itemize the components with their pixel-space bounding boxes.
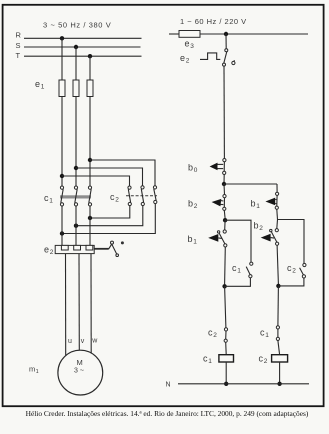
junction L3 tap: [88, 158, 92, 162]
wire c2 aux to node E: [278, 278, 304, 286]
junction control supply: [224, 32, 228, 36]
wire node E to interlock c1: [277, 286, 280, 326]
contactor c1 pole 3: [88, 186, 91, 206]
wire b2 NO to node E: [277, 245, 278, 284]
interlock contact c1 (NC): [276, 326, 279, 341]
contactor c1 mechanical bar: [60, 195, 91, 198]
svg-text:M: M: [77, 358, 83, 367]
wire c1 aux to node C: [225, 278, 251, 287]
wire interlock to coil c2: [278, 341, 280, 355]
wire node B to c1 aux branch: [225, 220, 251, 262]
junction L1 lower: [60, 231, 64, 235]
relay heater L3: [86, 245, 93, 250]
wire b2 to node B: [223, 210, 226, 218]
fuse e3: [179, 31, 200, 38]
coil c1: [219, 355, 234, 362]
wire e2 contact to b0: [223, 66, 225, 158]
junction node B: [223, 218, 227, 222]
wire control supply right: [200, 33, 308, 35]
pushbutton b2 (NC): [212, 195, 226, 211]
overload relay e2 body: [55, 245, 94, 253]
wire neutral bus: [178, 383, 309, 385]
svg-text:3 ~ 50 Hz / 380 V: 3 ~ 50 Hz / 380 V: [43, 21, 111, 30]
wire phase T bus: [24, 55, 142, 57]
wire coil c1 to N: [225, 362, 227, 384]
junction coil c1 N: [224, 382, 228, 386]
wire node D to c2 aux branch: [278, 220, 305, 264]
wire L3 contactor to relay: [89, 206, 91, 245]
pushbutton b1 (NO start): [208, 230, 227, 247]
relay e2 trip linkage: [94, 241, 124, 256]
wire b1 NC to node D: [276, 209, 279, 219]
wire node A to b2: [223, 184, 226, 195]
junction S: [74, 45, 78, 49]
svg-text:3 ~: 3 ~: [74, 368, 84, 375]
svg-text:u: u: [68, 338, 72, 345]
wire L3 drop to fuse: [89, 56, 91, 80]
wire L2 contactor to relay: [75, 206, 77, 245]
wire interlock to coil c1: [225, 342, 228, 354]
wire control supply left: [169, 33, 179, 35]
svg-text:R: R: [16, 31, 22, 40]
contactor c2 pole 3: [153, 186, 157, 204]
interlock contact c2 (NC): [224, 328, 228, 343]
wire L3 fuse to contactor: [89, 97, 91, 187]
wire phase S bus: [24, 46, 141, 48]
wire b1 to node C: [224, 247, 227, 284]
fuse e1 phase L3: [87, 80, 93, 97]
motor m1 circle: [58, 350, 103, 395]
wire L3 tap to c2 contact 3: [90, 160, 155, 186]
junction L2 lower: [74, 224, 78, 228]
wire L1 drop to fuse: [61, 38, 63, 80]
wire b0 to node A: [223, 175, 225, 185]
svg-text:w: w: [91, 338, 98, 345]
relay trip contact e2: [200, 49, 235, 66]
wire c2 pole1 to L3: [90, 206, 130, 218]
contactor c1 pole 2: [74, 186, 77, 206]
junction L3 lower: [88, 216, 92, 220]
wire branch down to b1 NC: [276, 184, 278, 192]
wire c2 pole2 to L2: [76, 206, 143, 226]
wire node C to interlock c2: [225, 286, 226, 328]
junction T: [88, 54, 92, 58]
wire L1 relay to motor: [65, 254, 67, 356]
svg-text:N: N: [166, 382, 171, 389]
wire L1 fuse to contactor: [61, 97, 63, 187]
wire phase R bus: [24, 37, 142, 39]
junction coil c2 N: [277, 382, 281, 386]
relay heater L2: [74, 245, 81, 250]
junction R: [60, 36, 64, 40]
fuse e1 phase L1: [59, 80, 65, 97]
fuse e1 phase L2: [73, 80, 79, 97]
coil c2: [272, 355, 288, 362]
junction node C: [222, 284, 226, 288]
svg-text:T: T: [16, 51, 21, 60]
pushbutton b1 (NC right): [265, 192, 278, 209]
junction L1 tap: [60, 174, 64, 178]
contactor c1 pole 1: [60, 186, 63, 206]
wire L2 drop to fuse: [75, 47, 77, 80]
junction node E: [276, 284, 280, 288]
wire node B to b1: [224, 220, 226, 230]
svg-text:S: S: [16, 41, 21, 50]
wire L2 relay to motor: [78, 254, 80, 351]
wire coil c2 to N: [279, 362, 281, 384]
wire node A to branch b1: [224, 183, 277, 185]
junction node A: [222, 182, 226, 186]
contactor c2 pole 1: [128, 186, 131, 206]
wire L2 fuse to contactor: [75, 97, 77, 187]
junction L2 tap: [74, 166, 78, 170]
aux contact c2 (NO): [300, 263, 306, 278]
contactor c2 mechanical dashed link: [126, 195, 157, 197]
wire L1 tap to c2 contact 1: [62, 176, 130, 186]
wire c2 pole3 to L1: [62, 204, 155, 234]
wire L2 tap to c2 contact 2: [76, 168, 143, 186]
wire L1 contactor to relay: [61, 206, 63, 245]
contactor c2 pole 2: [141, 186, 145, 206]
wire L3 relay to motor: [90, 254, 92, 354]
svg-text:Hélio Creder. Instalações elét: Hélio Creder. Instalações elétricas. 14.…: [26, 409, 309, 418]
wire supply to e2 contact: [225, 34, 227, 49]
relay heater L1: [61, 245, 68, 250]
pushbutton b0 (NC stop): [210, 159, 226, 175]
svg-text:v: v: [81, 338, 85, 345]
wire node D to b2 NO: [276, 220, 279, 229]
pushbutton b2 (NO): [261, 229, 279, 246]
svg-text:1 ~ 60 Hz / 220 V: 1 ~ 60 Hz / 220 V: [180, 17, 247, 26]
aux contact c1 (NO seal-in): [246, 262, 253, 278]
